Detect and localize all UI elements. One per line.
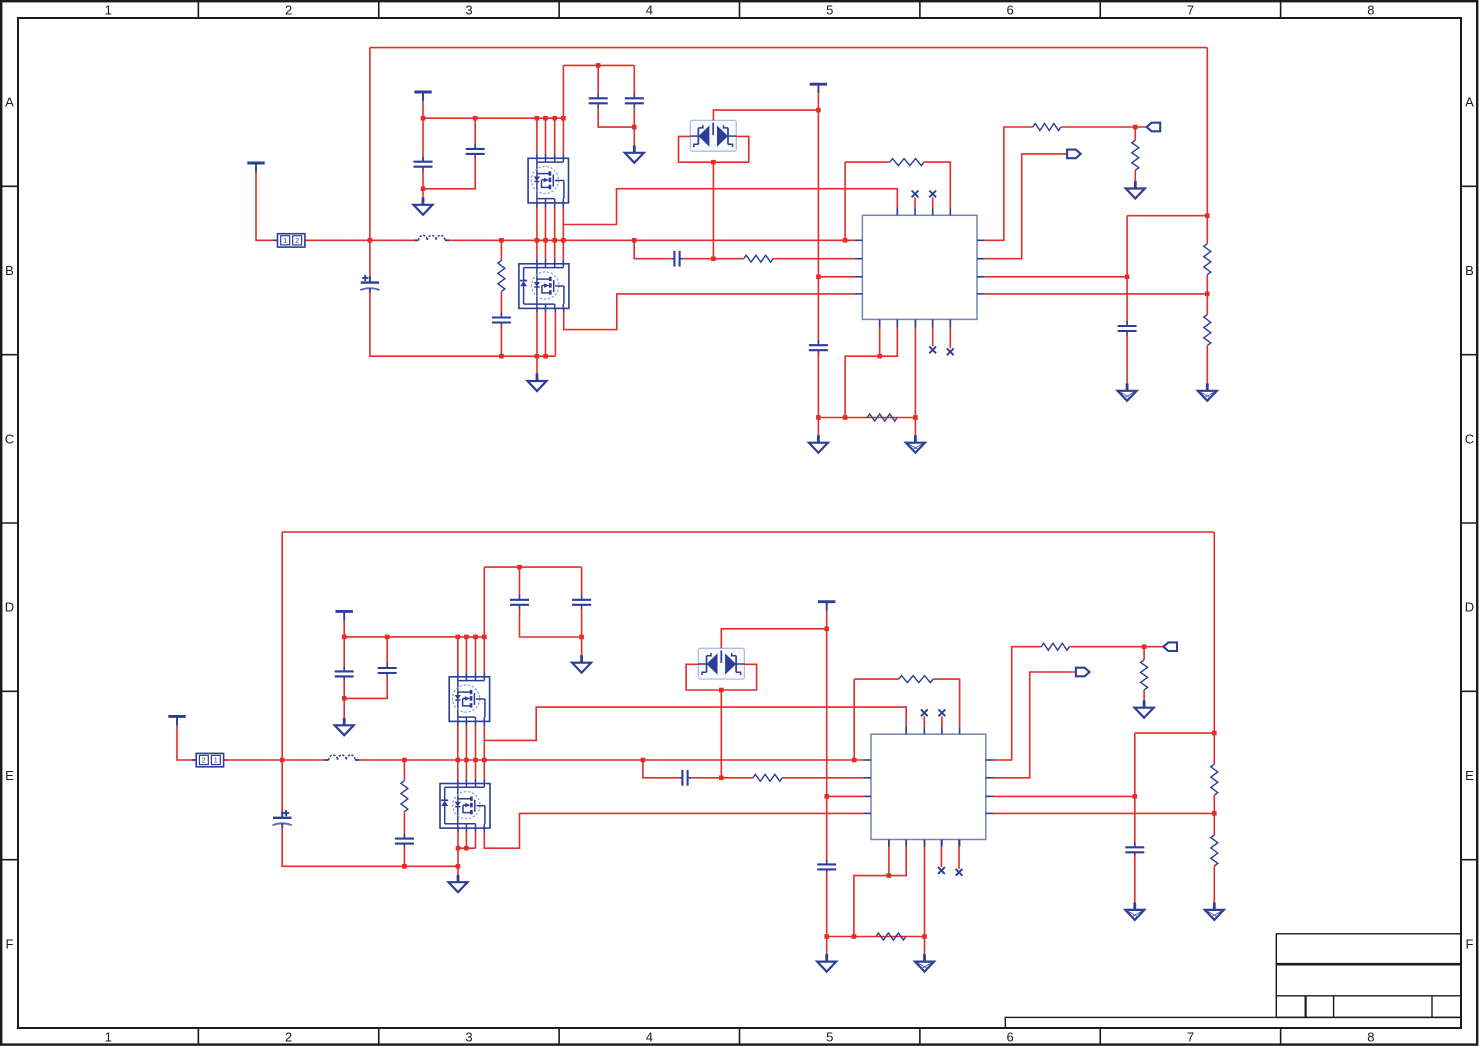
no-connect pin X (bottom ckt 2) <box>956 840 963 876</box>
inductor L2 <box>324 755 359 760</box>
wire VIN rail (bottom) <box>224 532 1214 817</box>
capacitor C11 <box>378 663 397 678</box>
ground PGND (below lower MOSFET) <box>528 356 547 391</box>
power flag VCC (top) <box>810 84 827 93</box>
ground (boot caps) <box>625 127 644 163</box>
wire input to ferrite (bottom) <box>177 725 196 760</box>
power flag VDDH (gate drive, top) <box>414 92 431 101</box>
svg-text:C: C <box>1465 431 1474 446</box>
svg-text:8: 8 <box>1367 3 1374 18</box>
wire D2 anodes loop (bottom) <box>686 664 757 778</box>
capacitor C14 VCC bypass (bottom) <box>817 859 836 874</box>
port PGOOD (top) <box>1147 123 1161 132</box>
wire Q3 source pins to SW rail (bottom) <box>458 721 476 760</box>
ground (C16) <box>1125 902 1144 920</box>
wire SW to RC filter (bottom) <box>643 760 678 778</box>
wire C14 to AGND rail (bottom) <box>824 872 926 939</box>
wire VCC to IC pin3 (bottom) <box>827 795 864 797</box>
wire R13 to port (bottom) <box>1069 644 1163 649</box>
wire IC gnd pin down (bottom) <box>924 840 926 955</box>
no-connect pin X (top of U2, 2) <box>939 709 946 726</box>
wire VCC to IC pin3 <box>818 276 854 278</box>
resistor R10 (AGND rail, bottom) <box>876 933 906 940</box>
svg-text:E: E <box>5 768 14 783</box>
wire D2 common to VCC (bottom) <box>721 629 826 649</box>
capacitor C1 <box>414 157 433 172</box>
transistor Q1 high-side MOSFET <box>528 158 568 203</box>
wire gate rail to Q1 pins <box>537 65 564 158</box>
resistor R14 pulldown (bottom) <box>1141 647 1148 701</box>
capacitor C6 (series) <box>670 251 683 267</box>
wire C8 to PGND <box>500 325 502 356</box>
wire CE1 to PGND rail <box>370 291 556 359</box>
svg-text:D: D <box>1465 600 1474 615</box>
wire VIN rail (top) <box>306 48 1208 283</box>
wire boot return to IC pins (bottom) <box>854 840 906 937</box>
wire BOOT cap rail <box>563 63 634 68</box>
inductor L1 <box>414 235 449 240</box>
wire C12/C13 join to ground <box>520 609 584 639</box>
capacitor C7 <box>1118 321 1137 336</box>
wire gate rail to Q3 pins <box>458 567 485 677</box>
ground AGND (bottom circuit) <box>817 937 836 972</box>
ground PGND (bottom circuit) <box>449 866 468 892</box>
resistor R6 pulldown <box>1132 127 1139 181</box>
ground (C7) <box>1118 383 1137 401</box>
ground (boot caps, bottom) <box>572 637 591 673</box>
capacitor C2 <box>466 144 485 159</box>
capacitor CE1 electrolytic <box>360 275 379 293</box>
svg-text:4: 4 <box>646 3 653 18</box>
capacitor C12 <box>510 567 529 610</box>
svg-text:2: 2 <box>285 3 292 18</box>
wire input to ferrite <box>256 172 278 240</box>
port EN (bottom) <box>1076 668 1090 677</box>
wire divider top link (bottom) <box>1135 731 1217 736</box>
op-amp U2 controller IC (bottom) <box>863 726 993 846</box>
wire C10/C11 join <box>342 676 387 701</box>
wire IC out2 to port <box>985 154 1067 259</box>
capacitor C3 <box>589 65 608 108</box>
svg-text:A: A <box>1465 95 1474 110</box>
svg-text:B: B <box>1465 263 1474 278</box>
resistor R13 <box>1041 643 1069 650</box>
ground (R8, hatched) <box>1198 383 1217 401</box>
resistor R12 (series to IC, bottom) <box>692 774 864 781</box>
resistor R2 (AGND rail) <box>867 414 897 421</box>
wire IC out1 to divider <box>985 127 1033 240</box>
transistor Q4 low-side MOSFET (bottom) <box>440 784 490 829</box>
svg-text:3: 3 <box>465 1030 472 1045</box>
wire IC out1 to divider (bottom) <box>994 647 1042 760</box>
ground (gate caps) <box>414 189 433 215</box>
wire gate-drive rail <box>421 101 566 162</box>
wire IC fb to divider mid <box>985 275 1130 280</box>
wire divider cap branch (bottom) <box>1134 733 1136 844</box>
wire IC out2 to port (bottom) <box>994 672 1076 778</box>
wire Q2 drain route to IC <box>564 294 855 330</box>
power flag VCC (bottom) <box>818 602 835 611</box>
ground (IC power gnd hatched, bottom) <box>915 954 934 972</box>
ground (R6) <box>1126 181 1145 199</box>
wire gate-drive rail (bottom) <box>342 620 487 669</box>
no-connect pin X (top 1) <box>912 191 919 208</box>
diode D2 dual TVS (bottom) <box>698 648 744 679</box>
diode D1 dual TVS <box>690 120 736 151</box>
svg-text:1: 1 <box>105 1030 112 1045</box>
svg-text:2: 2 <box>285 1030 292 1045</box>
wire IC fb to divider mid (bottom) <box>994 794 1138 799</box>
wire IC vsense to divider low <box>985 292 1210 297</box>
capacitor C9 snubber (bottom) <box>395 834 414 849</box>
svg-text:7: 7 <box>1187 1030 1194 1045</box>
no-connect pin X (bottom ckt 1) <box>938 840 945 874</box>
wire C5 to AGND rail <box>816 353 918 420</box>
resistor R5 <box>1033 124 1061 131</box>
svg-text:1: 1 <box>214 756 218 765</box>
svg-text:A: A <box>5 95 14 110</box>
capacitor C10 <box>335 666 354 681</box>
svg-text:C: C <box>5 431 14 446</box>
port PGOOD (bottom) <box>1163 642 1177 651</box>
capacitor C5 VCC bypass <box>809 340 828 355</box>
svg-text:7: 7 <box>1187 3 1194 18</box>
wire CE2 to PGND rail (bottom) <box>282 826 460 868</box>
ferrite bead FB1 <box>273 234 309 247</box>
resistor R8 (lower divider) <box>1204 315 1211 384</box>
svg-text:F: F <box>1466 936 1474 951</box>
op-amp U1 controller IC (top) <box>855 207 985 327</box>
wire IC gnd pin down <box>914 319 916 435</box>
wire SW to RC filter <box>634 240 670 258</box>
capacitor C15 (series) <box>678 770 691 786</box>
svg-text:B: B <box>5 263 14 278</box>
ground AGND (left) <box>809 418 828 453</box>
capacitor C8 snubber <box>492 313 511 328</box>
wire Q4 drain route to IC (bottom) <box>484 813 863 848</box>
svg-text:6: 6 <box>1006 3 1013 18</box>
wire VCC vertical (bottom) <box>824 611 829 863</box>
wire Q1 drain to IC pin (SW sense) <box>563 189 897 241</box>
wire C7 to ground <box>1126 334 1128 384</box>
svg-text:2: 2 <box>295 236 299 245</box>
wire C1/C2 to ground <box>421 156 476 191</box>
wire IC vsense to divider low (bottom) <box>994 811 1217 816</box>
wire C3/C4 join to ground <box>598 108 636 130</box>
title block <box>1005 934 1461 1028</box>
svg-text:6: 6 <box>1006 1030 1013 1045</box>
wire boot return to IC pins <box>845 319 897 417</box>
wire Q4 source join <box>456 846 476 866</box>
svg-text:E: E <box>1465 768 1474 783</box>
svg-text:8: 8 <box>1367 1030 1374 1045</box>
ground (IC power gnd, hatched) <box>906 435 925 453</box>
resistor R9 snubber (bottom) <box>401 760 408 836</box>
wire Q4 source pins down <box>458 828 476 848</box>
wire SW rail to Q2 drain pins <box>537 240 563 263</box>
svg-text:1: 1 <box>283 236 287 245</box>
capacitor C16 <box>1125 842 1144 857</box>
wire Q3 drain to IC pin (bottom) <box>484 707 906 760</box>
no-connect pin X (top 2) <box>929 191 936 208</box>
wire C16 to ground <box>1134 855 1136 903</box>
wire VCC vertical <box>816 93 821 343</box>
ground (gate caps, bottom) <box>335 698 354 735</box>
wire R5 to port <box>1061 125 1147 130</box>
resistor R1 snubber <box>498 240 505 315</box>
power flag J1 input (top circuit) <box>247 163 264 172</box>
ground (R16, hatched) <box>1205 902 1224 920</box>
svg-text:2: 2 <box>202 756 206 765</box>
power flag VDDH (gate drive, bottom) <box>336 611 353 620</box>
resistor R11 (top feedback, bottom ckt) <box>854 676 959 760</box>
capacitor C13 <box>572 567 591 610</box>
wire Q2 source pins to PGND rail <box>537 308 555 356</box>
resistor R7 (upper divider) <box>1204 48 1211 315</box>
no-connect pin X (bottom 2) <box>947 319 954 355</box>
wire C9 to PGND (bottom) <box>403 846 405 866</box>
ground (R14) <box>1135 700 1154 718</box>
resistor R16 (lower divider, bottom) <box>1211 835 1218 902</box>
port EN (top) <box>1067 150 1081 159</box>
svg-text:5: 5 <box>826 3 833 18</box>
resistor R4 (series to IC) <box>684 255 855 262</box>
wire divider cap branch <box>1126 216 1128 323</box>
wire D1 anodes loop <box>679 136 749 258</box>
svg-text:F: F <box>6 936 14 951</box>
wire Q1 source pins to SW rail <box>537 203 555 240</box>
power flag J2 input (bottom circuit) <box>168 716 185 725</box>
svg-text:1: 1 <box>105 3 112 18</box>
no-connect pin X (bottom 1) <box>929 319 936 353</box>
wire D1 common to VCC <box>713 110 818 120</box>
resistor R3 (top feedback) <box>845 159 950 241</box>
capacitor CE2 electrolytic <box>273 810 292 828</box>
no-connect pin X (top of U2, 1) <box>921 709 928 726</box>
transistor Q3 high-side MOSFET (bottom) <box>449 677 489 722</box>
ferrite bead FB2 <box>192 753 228 766</box>
svg-text:D: D <box>5 600 14 615</box>
capacitor C4 <box>625 65 644 108</box>
wire BOOT cap rail (bottom) <box>484 565 581 570</box>
transistor Q2 low-side MOSFET <box>519 264 569 309</box>
wire divider top link <box>1127 213 1210 218</box>
svg-text:4: 4 <box>646 1030 653 1045</box>
wire SW rail to Q4 drain pins (bottom) <box>458 760 485 784</box>
svg-text:5: 5 <box>826 1030 833 1045</box>
resistor R15 (upper divider, bottom) <box>1211 532 1218 835</box>
svg-text:3: 3 <box>465 3 472 18</box>
